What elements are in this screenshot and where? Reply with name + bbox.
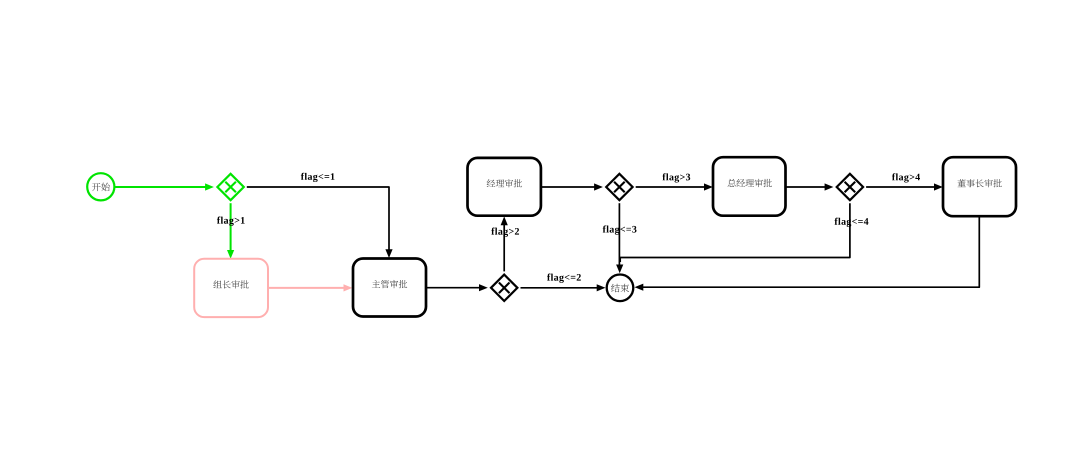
flow gateway4→结束 label flag<=4 [620,203,850,262]
task 经理审批 [468,158,541,216]
flow 总经理审批→gateway4 [786,183,834,190]
end event 结束 [607,275,634,302]
label flag>3 [662,173,690,182]
exclusive gateway 4 [837,174,863,200]
label flag>4 [892,173,920,182]
flow gateway3→结束 label flag<=3 [616,203,623,273]
flow gateway2→经理审批 label flag>2 [501,216,508,271]
flow 开始→gateway1 (green) [115,183,214,190]
task 总经理审批 [713,157,786,216]
label flag>1 [217,217,245,226]
flow 董事长审批→结束 [635,216,980,290]
task 组长审批 (pink) [194,259,268,317]
exclusive gateway 3 [606,174,632,200]
start event 开始 [87,173,114,200]
exclusive gateway 2 [491,275,517,301]
task 董事长审批 [943,157,1016,216]
task 主管审批 [353,259,426,317]
flow gateway1→组长审批 label flag>1 (green) [227,203,234,259]
flow gateway2→结束 label flag<=2 [521,284,606,291]
flow gateway1→主管审批 label flag<=1 [247,187,393,258]
flow 主管审批→gateway2 [426,284,488,291]
exclusive gateway 1 (green) [217,174,243,200]
flow gateway3→总经理审批 label flag>3 [636,183,713,190]
flow 经理审批→gateway3 [541,183,603,190]
flow gateway4→董事长审批 label flag>4 [866,183,943,190]
label flag<=1 [301,173,335,182]
label flag<=2 [547,274,581,283]
label flag<=4 [834,218,868,227]
label flag<=3 [603,225,637,234]
flow 组长审批→主管审批 (pink) [268,284,352,291]
label flag>2 [491,228,519,237]
